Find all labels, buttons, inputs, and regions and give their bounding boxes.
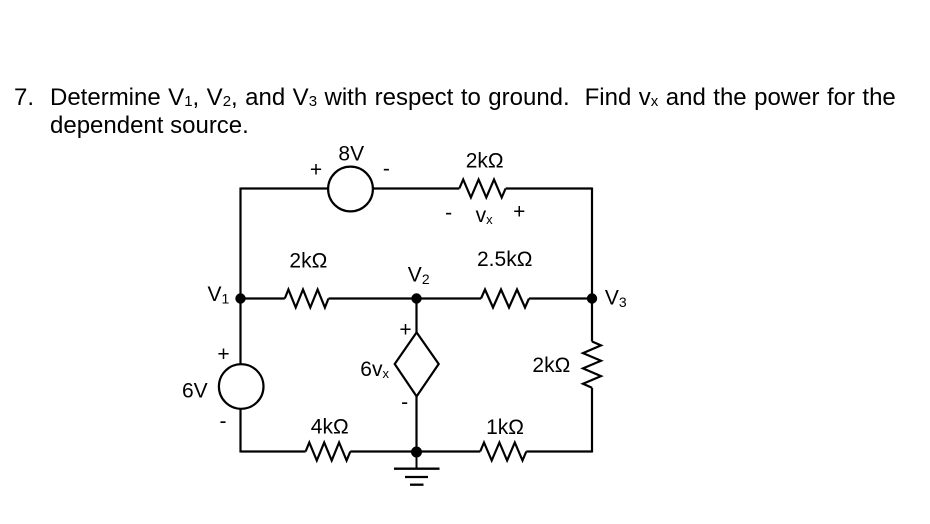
wire top-middle segment bbox=[373, 187, 459, 189]
svg-text:+: + bbox=[399, 319, 411, 342]
node ground junction dot bbox=[411, 447, 422, 458]
svg-text:vx: vx bbox=[476, 204, 494, 227]
wire top-left segment bbox=[241, 187, 329, 189]
resistor 2k top (horizontal) bbox=[459, 180, 505, 198]
svg-text:+: + bbox=[513, 201, 525, 224]
node V1 junction dot bbox=[235, 293, 245, 303]
voltage source V 6V (circle) bbox=[219, 364, 264, 409]
wire left vertical lower bbox=[239, 409, 241, 453]
problem statement line 1 bbox=[50, 84, 896, 112]
wire bottom left corner to 4k resistor bbox=[241, 450, 306, 452]
wire dependent source down to ground node bbox=[415, 396, 417, 452]
wire bottom 4k resistor to 1k resistor (through ground node) bbox=[350, 450, 480, 452]
resistor 2k middle-left (horizontal) bbox=[285, 290, 329, 308]
svg-text:1kΩ: 1kΩ bbox=[486, 416, 524, 439]
wire right vertical lower bbox=[591, 388, 593, 453]
svg-text:4kΩ: 4kΩ bbox=[311, 416, 349, 439]
svg-text:-: - bbox=[220, 410, 227, 433]
svg-text:2kΩ: 2kΩ bbox=[466, 150, 504, 173]
resistor 2k right (vertical) bbox=[583, 342, 601, 388]
svg-text:2kΩ: 2kΩ bbox=[532, 354, 570, 377]
svg-text:2.5kΩ: 2.5kΩ bbox=[477, 248, 532, 271]
svg-text:6vx: 6vx bbox=[360, 358, 389, 381]
wire middle row 2.5k resistor to V3 bbox=[529, 297, 592, 299]
resistor 2.5k middle-right (horizontal) bbox=[481, 290, 529, 308]
wire ground stub bbox=[416, 452, 418, 469]
svg-text:8V: 8V bbox=[338, 142, 364, 165]
problem number 7 bbox=[14, 84, 34, 112]
node V3 junction dot bbox=[587, 293, 597, 303]
resistor 4k bottom-left (horizontal) bbox=[306, 443, 351, 461]
wire left vertical upper bbox=[239, 188, 241, 365]
wire middle row 2k resistor to 2.5k resistor (through node V2) bbox=[329, 297, 482, 299]
svg-text:-: - bbox=[445, 201, 452, 224]
wire right vertical upper bbox=[591, 188, 593, 342]
svg-text:V2: V2 bbox=[408, 264, 430, 288]
resistor 1k bottom-right (horizontal) bbox=[480, 443, 526, 461]
svg-text:+: + bbox=[310, 159, 322, 182]
wire V2 node down to dependent source bbox=[415, 299, 417, 333]
dependent source 6vx (diamond) bbox=[395, 332, 439, 396]
ground symbol bbox=[394, 469, 440, 485]
wire top-right segment bbox=[506, 187, 592, 189]
node V2 junction dot bbox=[411, 293, 421, 303]
svg-text:V1: V1 bbox=[208, 283, 230, 307]
wire middle row V1 to 2k resistor bbox=[241, 297, 285, 299]
svg-text:-: - bbox=[383, 158, 390, 181]
svg-text:-: - bbox=[401, 391, 408, 414]
svg-text:+: + bbox=[217, 343, 229, 366]
svg-text:V3: V3 bbox=[605, 286, 627, 310]
voltage source V 8V (circle) bbox=[328, 167, 373, 212]
wire bottom 1k resistor to right corner bbox=[526, 450, 592, 452]
svg-text:2kΩ: 2kΩ bbox=[289, 250, 327, 273]
problem statement line 2 bbox=[50, 112, 249, 140]
svg-text:6V: 6V bbox=[182, 380, 208, 403]
